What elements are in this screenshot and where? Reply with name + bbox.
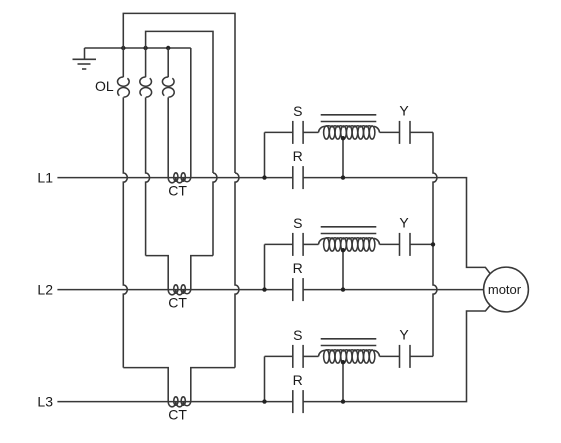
node coil tap block2 — [341, 248, 345, 252]
current transformer CT3 — [168, 402, 191, 407]
svg-text:S: S — [293, 327, 302, 343]
wire OL3 to CT1 left — [167, 97, 169, 177]
svg-text:S: S — [293, 215, 302, 231]
wire L2 left segment — [57, 289, 292, 291]
wire block1 branch S lead — [265, 131, 293, 133]
svg-text:L3: L3 — [37, 394, 53, 410]
svg-text:CT: CT — [168, 406, 187, 422]
wire L2 right segment to motor — [303, 289, 484, 291]
wire L1 right segment to motor top — [303, 178, 490, 274]
overload heater OL3 — [167, 48, 169, 77]
wire star point vertical (hops L1,L2) — [433, 132, 437, 356]
wire coil tap block3 — [342, 362, 344, 401]
motor M1 — [484, 267, 529, 312]
svg-text:OL: OL — [95, 78, 114, 94]
node bus-OL1 — [121, 46, 125, 50]
svg-text:R: R — [293, 372, 303, 388]
coil core block2 — [321, 226, 377, 228]
node block3 left — [262, 399, 266, 403]
svg-text:motor: motor — [488, 282, 522, 297]
node bus-OL3 — [166, 46, 170, 50]
current transformer CT1 — [168, 178, 191, 183]
wire Y3 to star — [410, 355, 433, 357]
wire block3 left vertical — [264, 356, 266, 401]
node line tap block3 — [341, 399, 345, 403]
contact R1 — [292, 166, 294, 189]
inductor coil block3 — [319, 350, 325, 356]
node bus-OL2 — [143, 46, 147, 50]
wire bus corner down to CT1 right — [190, 48, 192, 178]
wire L3 left segment — [57, 401, 292, 403]
wire block1 left vertical — [264, 132, 266, 177]
inductor coil block2 — [319, 238, 325, 244]
wire middle loop top — [146, 31, 213, 173]
contact S1 — [292, 121, 294, 144]
wire L1 left segment — [57, 177, 292, 179]
overload heater OL1 — [122, 48, 124, 77]
node block2 left — [262, 287, 266, 291]
wire coil to Y1 — [380, 131, 400, 133]
node line tap block2 — [341, 287, 345, 291]
wire outer loop top — [123, 13, 235, 173]
wire outer loop right to CT3 right (hops L1,L2) — [235, 173, 239, 368]
contact S3 — [292, 345, 294, 368]
svg-text:Y: Y — [399, 103, 409, 119]
svg-text:L1: L1 — [37, 170, 53, 186]
wire S3 to coil — [303, 355, 318, 357]
wire coil to Y2 — [380, 243, 400, 245]
svg-text:L2: L2 — [37, 282, 53, 298]
wire S1 to coil — [303, 131, 318, 133]
node star-Y2 — [431, 242, 435, 246]
wire coil tap block2 — [342, 250, 344, 289]
node block1 left — [262, 175, 266, 179]
coil core block3 — [321, 338, 377, 340]
svg-text:Y: Y — [399, 215, 409, 231]
contact S2 — [292, 233, 294, 256]
svg-text:CT: CT — [168, 182, 187, 198]
wire coil to Y3 — [380, 355, 400, 357]
contact Y2 — [399, 233, 401, 256]
svg-text:R: R — [293, 260, 303, 276]
node line tap block1 — [341, 175, 345, 179]
ground — [84, 48, 86, 59]
wire Y2 to star — [410, 243, 433, 245]
contact Y1 — [399, 121, 401, 144]
wire Y1 to star — [410, 131, 433, 133]
wire coil tap block1 — [342, 138, 344, 177]
wire OL2 to CT2 left (hop L1) — [146, 97, 150, 255]
svg-text:R: R — [293, 148, 303, 164]
node coil tap block3 — [341, 360, 345, 364]
svg-text:CT: CT — [168, 294, 187, 310]
inductor coil block1 — [319, 126, 325, 132]
wire S2 to coil — [303, 243, 318, 245]
contact Y3 — [399, 345, 401, 368]
wire L3 right segment to motor bottom — [303, 305, 490, 401]
wire block2 branch S lead — [265, 243, 293, 245]
svg-text:S: S — [293, 103, 302, 119]
node coil tap block1 — [341, 136, 345, 140]
wire middle loop right to CT2 right (hop L1) — [213, 173, 217, 256]
contact R3 — [292, 390, 294, 413]
wire block2 left vertical — [264, 244, 266, 289]
svg-text:Y: Y — [399, 327, 409, 343]
overload heater OL2 — [145, 48, 147, 77]
wire OL1 to CT3 left (hops L1,L2) — [123, 97, 127, 367]
contact R2 — [292, 278, 294, 301]
wire block3 branch S lead — [265, 355, 293, 357]
wire ground bus — [85, 47, 191, 49]
coil core block1 — [321, 114, 377, 116]
current transformer CT2 — [168, 290, 191, 295]
